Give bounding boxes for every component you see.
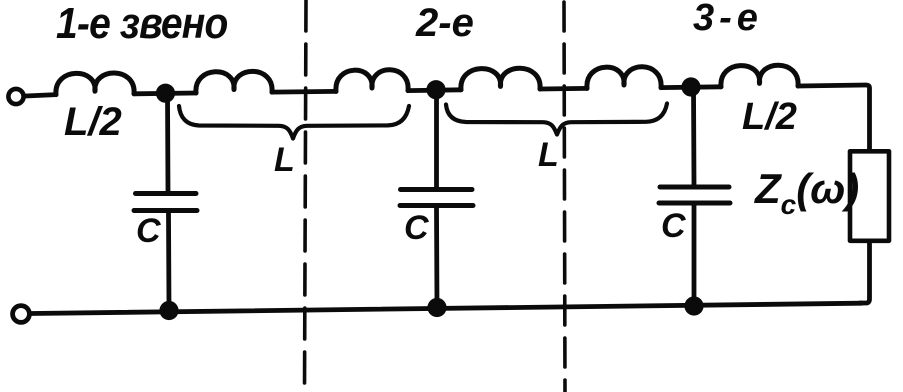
capacitor C2 bottom lead bbox=[434, 208, 439, 308]
capacitor C2 bottom plate bbox=[400, 203, 473, 208]
capacitor C1 bottom plate bbox=[134, 208, 197, 213]
output terminal bottom-left bbox=[13, 306, 30, 323]
inductor L/2 (right) bbox=[721, 65, 798, 87]
bottom rail junction dot 2 bbox=[427, 298, 446, 317]
wire inductor to node A bbox=[134, 91, 196, 97]
wire between inductor halves bbox=[540, 86, 587, 91]
section divider dashed line 1 bbox=[305, 0, 307, 390]
inductor L second half (section 1-2) bbox=[336, 70, 408, 92]
svg-text:L: L bbox=[538, 136, 559, 174]
svg-text:1-е звено: 1-е звено bbox=[56, 0, 227, 47]
capacitor C2 top plate bbox=[401, 187, 473, 192]
section divider dashed line 2 bbox=[564, 2, 565, 392]
capacitor C3 top plate bbox=[660, 185, 729, 190]
wire inductor to top-right corner and down to load bbox=[798, 85, 870, 149]
capacitor C3 top lead bbox=[691, 87, 696, 185]
inductor L second half (section 2-3) bbox=[587, 67, 661, 89]
capacitor C3 bottom plate bbox=[659, 201, 730, 206]
svg-text:C: C bbox=[136, 212, 161, 250]
inductor L first half (section 2-3) bbox=[461, 68, 540, 90]
svg-text:L: L bbox=[274, 141, 295, 179]
wire to node C bbox=[661, 84, 721, 90]
svg-text:L/2: L/2 bbox=[742, 96, 797, 138]
svg-text:L/2: L/2 bbox=[64, 100, 122, 144]
svg-text:2-е: 2-е bbox=[415, 1, 474, 45]
capacitor C1 bottom lead bbox=[166, 213, 171, 311]
svg-text:3-е: 3-е bbox=[693, 0, 763, 39]
node B junction dot (top) bbox=[426, 80, 445, 99]
inductor L/2 (left) bbox=[56, 73, 134, 95]
bottom rail junction dot 3 bbox=[684, 296, 703, 315]
brace for L (section 2-3) bbox=[446, 104, 667, 135]
input terminal top-left bbox=[8, 89, 23, 104]
load resistor Zc body bbox=[850, 151, 889, 241]
inductor L first half (section 1-2) bbox=[196, 71, 272, 93]
wire to node B bbox=[408, 87, 461, 93]
capacitor C3 bottom lead bbox=[692, 205, 697, 306]
wire input to inductor L/2 bbox=[26, 95, 57, 96]
svg-text:C: C bbox=[661, 207, 686, 245]
wire resistor bottom to bottom rail bbox=[860, 243, 870, 303]
svg-text:Zc(ω): Zc(ω) bbox=[754, 165, 859, 220]
wire between inductor halves bbox=[272, 89, 336, 94]
node C junction dot (top) bbox=[681, 77, 700, 96]
bottom rail wire bbox=[31, 303, 862, 313]
capacitor C1 top lead bbox=[165, 93, 170, 191]
brace for L (section 1-2) bbox=[179, 106, 409, 139]
capacitor C2 top lead bbox=[434, 90, 439, 188]
bottom rail junction dot 1 bbox=[159, 301, 178, 320]
svg-text:C: C bbox=[404, 209, 429, 247]
node A junction dot (top) bbox=[156, 84, 175, 103]
capacitor C1 top plate bbox=[136, 191, 197, 196]
